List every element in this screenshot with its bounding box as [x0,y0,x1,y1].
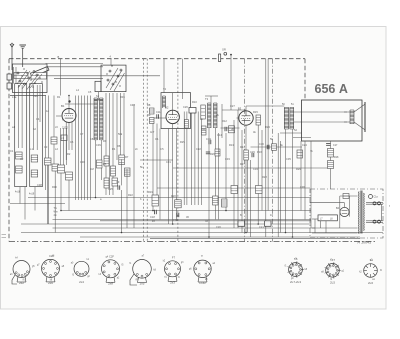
bus wire 4 [53,219,312,221]
switch S2 foot extension [95,81,101,91]
L1 winding lines [17,85,19,148]
socket diagram B3 base [74,261,89,276]
svg-text:GR: GR [222,49,226,52]
HT rail wire y188 [157,187,310,189]
resistor R4b [112,178,118,186]
resistor R17 [328,149,334,158]
resistor R3b [97,160,103,168]
svg-text:R4: R4 [112,147,116,151]
svg-text:R26: R26 [210,152,215,156]
capacitor C18 [154,210,156,214]
margin tick marks [2,234,7,236]
svg-text:C14: C14 [217,133,222,137]
rectifier wires [310,202,345,204]
tube B3 envelope [239,111,253,125]
wires right of B3 [257,125,259,224]
svg-text:C38: C38 [37,183,42,187]
screen partition dash-dot line x=272.6 [272,59,274,242]
svg-text:B3: B3 [238,106,242,110]
resistor R10 [189,108,196,114]
svg-text:C18: C18 [150,215,155,219]
socket diagram B7 base [198,277,199,282]
svg-text:C1: C1 [10,149,14,153]
svg-text:B: B [58,55,60,59]
trimmer C4 in can L2 [31,170,38,177]
svg-text:R9: R9 [147,113,151,117]
svg-text:C36: C36 [300,185,305,189]
power transformer T4 core [360,191,362,234]
resistor R19 [152,195,158,206]
coupling coil L4 windings [76,96,91,201]
svg-text:C32: C32 [196,147,201,151]
svg-text:2x2: 2x2 [19,281,24,285]
trimmer C2 in can L2 [31,155,38,162]
antenna coil left winding [12,67,14,84]
svg-text:R16: R16 [257,150,262,154]
oscillator coil can L2 [30,84,43,187]
phono feed dot [230,54,232,56]
oscillator coil block in S1 [31,73,47,80]
capacitor C17 [326,143,330,145]
resistor R15 [256,115,261,125]
capacitor C11 [156,114,158,118]
resistor R20 [175,200,182,208]
svg-text:4n7: 4n7 [150,130,155,134]
capacitor C10 series [266,145,268,149]
svg-text:S1: S1 [96,94,100,98]
svg-text:2x3: 2x3 [170,280,175,284]
svg-text:R22: R22 [128,193,133,197]
svg-text:1M: 1M [90,167,94,171]
power supply dash-dot box [310,189,383,238]
switch S2 dots [106,73,107,74]
svg-text:R14: R14 [240,145,245,149]
svg-text:2122: 2122 [62,126,68,130]
svg-text:C19: C19 [173,218,178,222]
IF transformer T1 secondary winding [99,98,101,140]
oscillator coil L3 windings [61,128,67,165]
svg-text:C15: C15 [250,150,255,154]
svg-text:2x8: 2x8 [108,281,113,285]
waveband switch S1 box [13,64,48,93]
resistor R42 [215,149,220,156]
svg-text:F7: F7 [332,258,336,262]
svg-text:R 10045: R 10045 [358,241,372,245]
svg-text:656 A: 656 A [315,82,348,96]
plug pin contacts bottom [373,220,376,223]
svg-text:R8: R8 [147,103,151,107]
IF transformer T2 secondary winding [213,103,215,128]
svg-text:C3: C3 [44,145,48,149]
svg-text:R19: R19 [148,190,153,194]
phono pickup jack circle [224,52,227,55]
svg-text:2x5: 2x5 [140,282,145,286]
wire below S1 [10,95,46,97]
power transformer T4 secondary winding [363,193,365,231]
switch S2 stem wire [110,59,112,65]
coupling wire [54,77,103,79]
loudspeaker enclosure box [302,100,363,141]
svg-text:L1a: L1a [12,95,17,99]
B2 bias wires [168,129,170,225]
shield feed wire [163,59,165,93]
tube B1 grid wire [56,115,61,117]
svg-text:R18: R18 [334,156,339,159]
wires L1 to bus [19,187,21,204]
chassis boundary dashed top [9,58,305,60]
svg-text:R31: R31 [120,95,125,99]
svg-text:R1: R1 [57,95,61,99]
svg-text:C9: C9 [116,180,120,184]
tube B1 grid cap dot [68,100,70,102]
ballast resistor L7 L8 box [318,215,337,221]
value labels [10,87,313,229]
socket B5 lead hook [130,274,137,285]
wire S1 to S2 upper [46,63,104,65]
svg-text:R23: R23 [265,125,270,129]
bus wire 10 [150,237,360,239]
svg-text:4n19: 4n19 [29,194,35,196]
svg-text:C21: C21 [259,225,264,229]
cathode resistor R14 [244,150,249,160]
capacitor C19 [176,213,178,217]
resistor R3 [104,156,109,166]
svg-text:R15: R15 [253,110,258,114]
T2 wires [208,128,210,237]
electrolytic C21 [265,221,272,227]
tube B3 plate to transformer wire [246,105,284,107]
bus wire 3 [61,210,311,212]
screen divider wires [106,93,124,160]
socket diagram B10 base (tick ring) [364,264,378,278]
svg-text:C2F: C2F [109,254,114,258]
svg-text:C11: C11 [156,110,161,114]
bus wire 2 [10,203,65,205]
svg-text:R3: R3 [103,139,107,143]
dial lamp wires [320,221,322,228]
resistor R33 [256,186,263,194]
power transformer T4 primary winding [358,192,360,234]
socket diagram B1 base [17,277,18,282]
svg-text:R30: R30 [52,185,57,189]
resistor R35 [185,120,189,129]
loudspeaker coil [349,110,351,124]
IF coil inside can [162,96,164,108]
detector wires [221,104,223,138]
ground symbol [19,44,26,46]
tube B2 envelope [166,110,179,123]
screen partition dashed line x=177.9 [177,59,179,242]
svg-text:FOR: FOR [199,281,206,285]
terminal link wire [381,204,383,221]
resistor R11 [201,105,206,119]
bus wire 8 [21,232,383,234]
plug pin contacts top [373,202,376,205]
tone network wire [330,141,332,189]
tube B3 grid wire [237,117,239,119]
bus wire 7 [53,227,316,229]
svg-text:C40: C40 [130,103,135,107]
antenna coil block in S1 [14,73,28,79]
svg-text:C5: C5 [88,90,92,94]
svg-text:2L5: 2L5 [330,281,335,285]
svg-text:C2: C2 [20,157,24,161]
svg-text:C7: C7 [80,132,84,136]
tube B1 heater legs [65,122,67,160]
padder C6 [45,158,52,165]
trimmer C1 in can L1 [16,152,23,159]
svg-text:4n18: 4n18 [15,192,21,194]
trimmer C5 [51,137,57,144]
tube socket row [10,254,383,286]
capacitor C41 [206,151,210,153]
aerial terminal block upper [7,74,12,80]
svg-text:C25: C25 [108,187,113,191]
volume control wires [184,112,201,206]
tube B3 plate wire [245,106,247,111]
AF coupling wires [247,160,249,233]
svg-text:R13: R13 [229,143,234,147]
svg-text:0.5: 0.5 [160,147,164,151]
svg-text:C6: C6 [70,140,74,144]
socket diagram B8 base (9 pin) [289,263,303,277]
svg-text:C4: C4 [36,117,40,121]
svg-text:R11: R11 [201,127,206,131]
terminal tick B [60,59,62,96]
svg-text:R12: R12 [222,119,227,123]
svg-text:C17: C17 [333,144,338,147]
svg-text:2L6: 2L6 [368,281,373,285]
capacitor C15 [251,153,253,157]
resistor R8 [150,108,155,114]
T1 top wires [94,99,103,101]
wires T3 to speaker [294,111,347,113]
svg-text:F7: F7 [172,255,176,259]
wires L3 to bus [60,173,62,211]
speaker connection wires [344,111,350,113]
svg-text:R10: R10 [192,100,197,104]
capacitor C13 [208,140,210,144]
svg-text:C39: C39 [96,143,101,147]
svg-text:2x6: 2x6 [48,281,53,285]
svg-text:2L7-2L3: 2L7-2L3 [290,280,301,284]
capacitor C9 [117,185,119,189]
svg-text:C24: C24 [302,143,307,147]
switch S1 contact lines [18,71,30,88]
screen partition dashed line x=143.6 [143,59,145,242]
mains wires [312,227,358,229]
padder C7 [52,164,59,171]
socket diagram B6 base [168,276,169,281]
svg-text:C35: C35 [286,157,291,161]
IF can shield box [161,93,191,129]
IF transformer T2 primary winding [207,103,209,128]
resistor R16 series [272,144,277,151]
svg-text:0.1: 0.1 [155,137,159,141]
switch S1 rotated coupling plate [31,67,50,78]
svg-text:2x4: 2x4 [79,280,84,284]
resistor R6 [119,155,125,165]
socket diagram B5 base [138,277,139,282]
svg-text:R5: R5 [103,162,107,166]
svg-text:C1a: C1a [374,197,379,199]
svg-text:C20: C20 [216,225,221,229]
chassis boundary dashed left [8,59,10,242]
trimmer C3 in can L1 [16,166,23,173]
resistor R21 [213,196,219,205]
screen partition dashed line x=147.2 [146,59,148,242]
grid coupling wire [221,127,240,129]
junction dots [68,95,70,97]
svg-text:R20: R20 [171,194,176,198]
socket diagram B2 base [46,277,47,282]
resistor R5 [104,178,109,188]
socket diagram B9 base (9 pin) [326,264,340,278]
svg-text:C8: C8 [90,137,94,141]
svg-text:R28: R28 [262,175,267,179]
svg-text:R2: R2 [67,152,71,156]
svg-text:4m: 4m [54,214,57,217]
switch S2 contact lines [106,68,118,88]
electrolytic C20 [238,221,245,227]
svg-text:C16: C16 [259,142,264,146]
grid feed wire [46,75,160,77]
aerial terminal block lower [7,83,12,89]
resistor R7 [124,168,130,176]
T3 lower tap wires [280,132,302,134]
speaker field wires [310,141,312,228]
AVC line wire [65,103,94,105]
tube B2 top feed wire [181,59,183,99]
phono terminal block [219,54,221,62]
output transformer T3 primary [283,107,285,129]
bus wire 1 [28,197,311,199]
fuse box above rectifier [343,194,349,199]
wires L2 to bus [53,96,55,138]
rectifier tube B4 envelope [340,207,349,216]
waveband switch S2 box [101,65,126,92]
switch S1 extra contacts [30,74,42,88]
resistor R9 [150,118,155,124]
resistor R18 [328,161,334,169]
tube B2 grid wire [153,117,166,119]
svg-text:C33: C33 [225,157,230,161]
bus wire 5 [100,220,311,222]
IF transformer T1 primary winding [93,98,95,140]
bias component box [61,135,67,141]
bus wire 9 [80,236,360,238]
wires near B2 [152,124,154,211]
svg-text:R6: R6 [117,144,121,148]
loudspeaker cone [354,105,365,113]
svg-text:R7: R7 [125,155,129,159]
output capacitor C22 [369,195,373,199]
tube B2 plate wire [172,93,174,110]
svg-text:C31: C31 [166,160,171,164]
svg-text:C2a: C2a [33,94,38,98]
L2 winding lines [33,85,35,150]
switch S1 contact circles [19,80,21,82]
antenna coil can L1 [15,84,27,187]
AF coupling wire y147 [251,146,303,148]
AF takeoff wire y160 [140,159,173,161]
HT feed wires [277,133,279,237]
resistor R34 [297,150,303,158]
svg-text:C30: C30 [80,160,85,164]
bus wire 6 [21,223,311,225]
svg-text:C34: C34 [253,167,258,171]
tube B1 envelope [62,109,76,123]
resistor R32 [231,186,238,194]
wires mid column [121,159,123,185]
T3 bottom wires [285,129,287,232]
svg-text:R27: R27 [240,162,245,166]
tube B2 cathode wire [172,124,174,224]
screen partition dash-dot line x=244.6 [244,59,246,242]
chassis boundary dash-dot bottom [9,241,377,243]
socket B1 lead hook [12,275,17,284]
capacitor C14 series [224,127,226,131]
RF choke wires [45,96,47,191]
svg-text:C26: C26 [183,105,188,109]
antenna A [10,44,14,47]
output transformer T3 secondary [289,107,291,129]
oscillator trimmers [58,165,65,173]
tube B3 cathode wire [245,125,247,232]
svg-text:C13: C13 [206,137,211,141]
mains output wires bottom [366,220,383,222]
svg-text:R25: R25 [180,140,185,144]
switch S1 wiper dots [21,75,22,76]
svg-text:B2: B2 [165,106,169,110]
tube B1 cathode wire [68,123,70,151]
resistor R13 series [229,126,235,133]
svg-text:50k: 50k [118,132,123,136]
mains output wires top [366,202,383,204]
chassis boundary dashed right corner [304,59,306,99]
svg-text:C27: C27 [230,104,235,108]
switch S2 contact circles [107,79,109,81]
resistor R4 [111,166,116,176]
socket diagram B4 base [106,277,107,282]
svg-text:R29: R29 [296,167,301,171]
T1 bottom wires [95,140,97,198]
svg-text:B1: B1 [61,104,65,108]
resistor R11b [202,126,207,135]
tube B1 plate wire [68,96,70,109]
detector output wire y168 [173,167,331,169]
resistor R24 [222,199,228,207]
